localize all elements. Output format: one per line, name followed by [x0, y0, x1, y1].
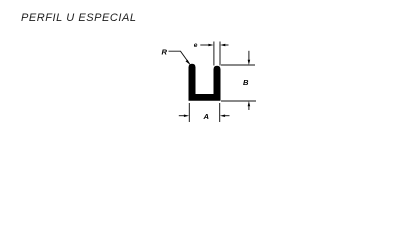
- svg-text:B: B: [243, 78, 249, 87]
- svg-text:R: R: [162, 48, 168, 57]
- B top arrowhead (points down): [248, 60, 251, 65]
- B top extension line: [221, 64, 255, 66]
- e dimension right arrow tail: [225, 44, 229, 46]
- A right extension line: [219, 103, 221, 122]
- e dimension left arrowhead: [208, 44, 213, 47]
- B top arrow tail: [248, 51, 250, 61]
- A dimension right arrow tail: [224, 115, 229, 117]
- B bottom extension line: [221, 100, 256, 102]
- title PERFIL U ESPECIAL: [21, 13, 137, 24]
- e extension line right (from right leg right edge): [219, 42, 221, 66]
- e dimension left arrow line: [200, 44, 209, 46]
- svg-text:A: A: [203, 112, 209, 121]
- A left extension line: [188, 103, 190, 122]
- B bottom arrow tail: [248, 106, 250, 110]
- A dimension left arrow tail: [179, 115, 185, 117]
- e extension line left (from right leg left edge): [213, 42, 215, 66]
- A dimension right arrowhead: [220, 114, 225, 117]
- leader arrowhead: [186, 60, 191, 65]
- U profile cross-section (solid black): [189, 64, 221, 101]
- e dimension right arrowhead: [220, 44, 225, 47]
- svg-text:e: e: [194, 42, 198, 49]
- leader line from R to left leg top radius: [169, 51, 190, 64]
- A dimension left arrowhead: [184, 114, 189, 117]
- B bottom arrowhead (points up): [248, 101, 251, 106]
